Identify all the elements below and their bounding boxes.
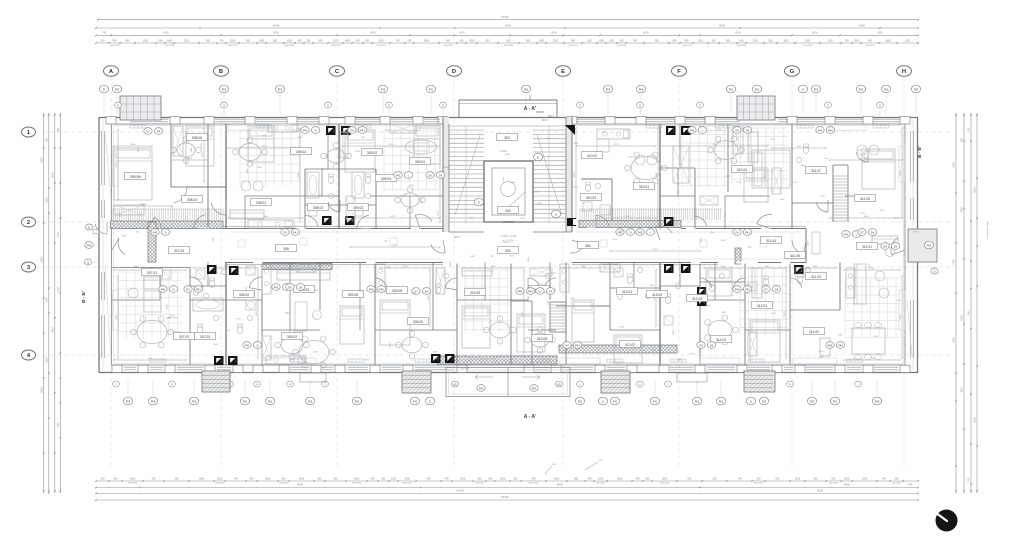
svg-text:302: 302	[505, 209, 511, 213]
svg-text:3600: 3600	[726, 176, 732, 178]
svg-text:600: 600	[646, 477, 651, 480]
svg-text:600: 600	[740, 39, 745, 42]
svg-text:P01: P01	[755, 87, 760, 91]
svg-text:(900x2350): (900x2350)	[568, 45, 577, 47]
svg-text:(900x2350): (900x2350)	[285, 45, 294, 47]
svg-text:8000: 8000	[444, 167, 450, 169]
svg-text:8000: 8000	[817, 489, 824, 493]
svg-text:1500: 1500	[230, 39, 236, 42]
svg-text:1790: 1790	[716, 129, 722, 131]
svg-text:14460: 14460	[272, 23, 280, 27]
svg-text:(900x2350): (900x2350)	[617, 45, 626, 47]
svg-text:500: 500	[699, 39, 704, 42]
svg-text:900: 900	[206, 39, 211, 42]
svg-text:8000: 8000	[643, 32, 649, 35]
svg-text:D6: D6	[428, 173, 432, 177]
svg-text:600: 600	[382, 477, 387, 480]
svg-text:1800: 1800	[424, 39, 430, 42]
svg-text:740: 740	[968, 127, 971, 132]
svg-text:2t: 2t	[429, 399, 431, 403]
svg-text:D4: D4	[425, 289, 429, 293]
svg-text:A - A': A - A'	[524, 106, 536, 112]
svg-text:2975: 2975	[819, 357, 825, 359]
svg-text:2975: 2975	[725, 213, 727, 219]
svg-text:P41: P41	[360, 128, 365, 132]
svg-text:D6: D6	[288, 285, 292, 289]
svg-text:P01: P01	[729, 87, 734, 91]
svg-text:740: 740	[633, 39, 638, 42]
svg-text:313.05: 313.05	[470, 291, 480, 295]
svg-text:900: 900	[832, 477, 837, 480]
svg-text:(900x2350): (900x2350)	[279, 483, 289, 485]
svg-text:1485: 1485	[171, 204, 173, 210]
svg-text:+5,000: +5,000	[499, 150, 507, 153]
svg-text:2440: 2440	[968, 310, 971, 316]
svg-text:310.02: 310.02	[587, 154, 597, 158]
svg-text:DET.9: DET.9	[454, 236, 461, 239]
svg-text:900: 900	[636, 477, 641, 480]
svg-text:2440: 2440	[247, 168, 249, 174]
svg-text:3675: 3675	[262, 146, 268, 148]
svg-text:(900x2350): (900x2350)	[682, 45, 691, 47]
svg-text:P40: P40	[518, 289, 523, 293]
svg-text:4425: 4425	[511, 182, 517, 184]
svg-text:2100: 2100	[813, 266, 819, 268]
svg-text:307.02: 307.02	[179, 335, 189, 339]
svg-text:8000: 8000	[355, 151, 361, 153]
svg-text:DET.9: DET.9	[913, 232, 920, 234]
svg-text:2100: 2100	[824, 158, 830, 160]
svg-text:P41: P41	[293, 230, 298, 234]
svg-text:2440: 2440	[403, 266, 409, 268]
svg-text:A - A': A - A'	[524, 414, 536, 420]
svg-text:308.03: 308.03	[313, 206, 323, 210]
svg-text:313.03: 313.03	[652, 293, 662, 297]
svg-text:3675: 3675	[246, 286, 248, 292]
svg-text:(900x2350): (900x2350)	[596, 483, 606, 485]
svg-text:600: 600	[507, 39, 512, 42]
svg-text:8340: 8340	[163, 32, 169, 35]
svg-text:(900x2350): (900x2350)	[660, 483, 670, 485]
svg-text:6460: 6460	[877, 32, 883, 35]
svg-text:2t: 2t	[172, 287, 174, 291]
svg-text:300: 300	[712, 39, 717, 42]
svg-text:D6: D6	[894, 244, 898, 248]
svg-text:308.06: 308.06	[192, 136, 202, 140]
svg-text:60420: 60420	[501, 495, 509, 499]
svg-text:(900x2350): (900x2350)	[443, 45, 452, 47]
svg-text:3930: 3930	[784, 311, 786, 317]
svg-text:D6: D6	[710, 343, 714, 347]
svg-text:A5: A5	[557, 382, 561, 386]
svg-text:B - B': B - B'	[81, 291, 86, 303]
svg-text:1485: 1485	[173, 318, 179, 320]
svg-text:1200: 1200	[862, 477, 868, 480]
svg-text:2975: 2975	[860, 213, 866, 215]
svg-text:2t: 2t	[314, 128, 316, 132]
svg-text:3600: 3600	[45, 197, 48, 203]
svg-text:P01: P01	[278, 87, 283, 91]
svg-text:8000: 8000	[297, 483, 304, 487]
svg-text:2740: 2740	[805, 268, 811, 270]
svg-text:600: 600	[776, 477, 781, 480]
svg-text:8000: 8000	[719, 23, 725, 27]
svg-text:P03: P03	[914, 87, 919, 91]
svg-text:900: 900	[610, 39, 615, 42]
svg-text:311.07: 311.07	[811, 169, 821, 173]
svg-text:900: 900	[532, 477, 537, 480]
svg-text:2t: 2t	[537, 155, 539, 159]
svg-text:307.03: 307.03	[200, 335, 210, 339]
svg-text:P02: P02	[524, 87, 529, 91]
svg-text:J: J	[324, 384, 325, 386]
svg-text:P03: P03	[859, 87, 864, 91]
svg-text:313.02: 313.02	[625, 343, 635, 347]
svg-text:P03: P03	[413, 399, 418, 403]
svg-text:1800: 1800	[783, 39, 789, 42]
svg-text:13090: 13090	[40, 256, 43, 263]
svg-text:1500: 1500	[662, 477, 668, 480]
svg-text:600: 600	[366, 39, 371, 42]
svg-text:309.06: 309.06	[348, 293, 358, 297]
svg-text:740: 740	[396, 39, 401, 42]
svg-text:8050: 8050	[974, 187, 977, 193]
svg-text:4425: 4425	[421, 197, 423, 203]
svg-text:D4: D4	[871, 230, 875, 234]
svg-text:1485: 1485	[505, 154, 511, 156]
svg-text:P01: P01	[268, 399, 273, 403]
svg-text:311.06: 311.06	[860, 197, 870, 201]
svg-text:2100: 2100	[894, 218, 900, 220]
svg-text:(900x2350): (900x2350)	[865, 45, 874, 47]
svg-text:900: 900	[250, 477, 255, 480]
svg-text:2740: 2740	[820, 196, 826, 198]
svg-text:1790: 1790	[570, 298, 576, 300]
svg-text:300: 300	[486, 39, 491, 42]
svg-text:1485: 1485	[528, 295, 530, 301]
svg-text:1200: 1200	[391, 477, 397, 480]
svg-text:1500: 1500	[752, 39, 758, 42]
svg-text:900: 900	[113, 39, 118, 42]
svg-text:740: 740	[968, 477, 971, 482]
svg-text:900: 900	[688, 477, 693, 480]
svg-text:P40: P40	[379, 287, 384, 291]
svg-text:P22: P22	[762, 399, 767, 403]
svg-text:307.01: 307.01	[147, 271, 157, 275]
svg-text:G: G	[790, 69, 795, 75]
svg-text:308.00: 308.00	[239, 293, 249, 297]
svg-text:DET.9: DET.9	[548, 115, 555, 118]
svg-text:3485: 3485	[953, 337, 956, 343]
svg-text:D4: D4	[350, 128, 354, 132]
svg-text:4425: 4425	[389, 144, 395, 146]
svg-text:900: 900	[571, 39, 576, 42]
svg-text:D4: D4	[549, 289, 553, 293]
svg-text:900: 900	[159, 39, 164, 42]
svg-text:1790: 1790	[770, 139, 776, 141]
svg-text:D4: D4	[735, 230, 739, 234]
svg-text:P42: P42	[844, 232, 849, 236]
svg-text:2100: 2100	[201, 143, 203, 149]
svg-text:311.01: 311.01	[862, 245, 872, 249]
svg-text:2100: 2100	[254, 291, 256, 297]
svg-text:6475: 6475	[653, 249, 659, 251]
svg-text:740: 740	[445, 477, 450, 480]
svg-text:P40: P40	[838, 343, 843, 347]
svg-text:2t: 2t	[750, 399, 752, 403]
svg-text:P02: P02	[115, 87, 120, 91]
svg-text:2740: 2740	[547, 300, 549, 306]
svg-text:P40: P40	[828, 128, 833, 132]
svg-text:900: 900	[961, 137, 964, 142]
svg-text:312.02: 312.02	[716, 338, 726, 342]
svg-text:900: 900	[45, 137, 48, 142]
svg-text:311.05: 311.05	[790, 254, 800, 258]
svg-text:309.02: 309.02	[367, 151, 377, 155]
svg-text:1800: 1800	[199, 477, 205, 480]
svg-text:P41: P41	[745, 230, 750, 234]
svg-text:300: 300	[101, 39, 106, 42]
svg-text:P02: P02	[355, 399, 360, 403]
svg-text:(900x2350): (900x2350)	[402, 483, 412, 485]
svg-text:313.01: 313.01	[622, 290, 632, 294]
svg-text:4425: 4425	[601, 132, 607, 134]
svg-text:900: 900	[460, 39, 465, 42]
svg-text:309.00: 309.00	[413, 320, 423, 324]
svg-text:8000: 8000	[528, 256, 530, 262]
svg-text:D: D	[452, 69, 456, 75]
svg-text:3600: 3600	[450, 261, 452, 267]
svg-text:1200: 1200	[598, 477, 604, 480]
svg-text:1485: 1485	[837, 335, 843, 337]
svg-text:3675: 3675	[433, 351, 439, 353]
svg-text:8050: 8050	[40, 157, 43, 163]
svg-text:309.01: 309.01	[415, 160, 425, 164]
svg-text:1800: 1800	[617, 477, 623, 480]
svg-text:1200: 1200	[552, 39, 558, 42]
svg-text:1200: 1200	[551, 273, 557, 275]
svg-text:1200: 1200	[217, 477, 223, 480]
svg-text:900: 900	[371, 477, 376, 480]
svg-text:600: 600	[906, 39, 911, 42]
svg-text:D4: D4	[157, 129, 161, 133]
svg-text:D7: D7	[146, 129, 150, 133]
svg-text:800: 800	[685, 39, 690, 42]
svg-text:2740: 2740	[628, 157, 634, 159]
svg-text:P02: P02	[814, 87, 819, 91]
svg-text:P40: P40	[828, 343, 833, 347]
svg-text:1200: 1200	[780, 199, 786, 201]
svg-text:900: 900	[318, 477, 323, 480]
svg-text:P01: P01	[695, 399, 700, 403]
svg-text:307.04: 307.04	[174, 249, 184, 253]
svg-text:P09: P09	[875, 399, 880, 403]
svg-text:P41: P41	[575, 343, 580, 347]
svg-text:4425: 4425	[808, 240, 810, 246]
svg-text:8000: 8000	[735, 32, 741, 35]
svg-text:3675: 3675	[614, 144, 620, 146]
svg-text:2: 2	[27, 220, 30, 226]
svg-text:900: 900	[655, 39, 660, 42]
svg-text:J: J	[667, 384, 668, 386]
svg-text:1200: 1200	[184, 39, 190, 42]
svg-text:4580: 4580	[298, 172, 300, 178]
svg-text:2t: 2t	[933, 269, 935, 273]
svg-text:2t: 2t	[555, 212, 557, 216]
svg-text:H: H	[491, 254, 493, 258]
svg-text:4425: 4425	[503, 242, 509, 244]
svg-text:D6: D6	[735, 128, 739, 132]
svg-text:3930: 3930	[900, 314, 902, 320]
svg-text:2100: 2100	[213, 344, 219, 346]
svg-text:(900x2350): (900x2350)	[110, 45, 119, 47]
svg-text:3600: 3600	[116, 162, 118, 168]
svg-text:P05: P05	[308, 399, 313, 403]
svg-text:1485: 1485	[721, 312, 727, 314]
svg-text:P02: P02	[222, 87, 227, 91]
svg-text:(900x2350): (900x2350)	[504, 45, 513, 47]
svg-text:2440: 2440	[706, 306, 712, 308]
svg-text:9000: 9000	[273, 32, 279, 35]
svg-text:P02: P02	[613, 399, 618, 403]
svg-text:D7: D7	[860, 230, 864, 234]
svg-text:1800: 1800	[259, 39, 265, 42]
svg-text:1500: 1500	[854, 39, 860, 42]
svg-text:900: 900	[175, 477, 180, 480]
svg-text:387.03: 387.03	[461, 367, 469, 370]
svg-text:P40: P40	[369, 287, 374, 291]
svg-text:3600: 3600	[289, 270, 295, 272]
svg-text:P0J: P0J	[927, 243, 932, 247]
svg-text:1200: 1200	[736, 181, 742, 183]
svg-text:312.01: 312.01	[757, 304, 767, 308]
svg-text:2975: 2975	[879, 210, 885, 212]
svg-text:300: 300	[814, 477, 819, 480]
svg-text:P40: P40	[735, 287, 740, 291]
svg-text:5050: 5050	[51, 327, 54, 333]
svg-text:312.03: 312.03	[692, 297, 702, 301]
svg-text:1800: 1800	[539, 39, 545, 42]
svg-text:1485: 1485	[470, 256, 476, 258]
svg-text:900: 900	[319, 39, 324, 42]
svg-text:2t: 2t	[256, 343, 258, 347]
svg-text:2t: 2t	[478, 200, 480, 204]
svg-text:2740: 2740	[625, 216, 631, 218]
svg-text:(900x2350): (900x2350)	[228, 45, 237, 47]
svg-text:E: E	[561, 69, 565, 75]
svg-text:P42: P42	[274, 285, 279, 289]
svg-text:600: 600	[126, 39, 131, 42]
svg-text:1500: 1500	[130, 477, 136, 480]
svg-text:P41: P41	[196, 287, 201, 291]
svg-text:2560: 2560	[428, 295, 430, 301]
svg-text:2100: 2100	[313, 351, 319, 353]
svg-text:308.01: 308.01	[256, 201, 266, 205]
svg-text:308.04: 308.04	[187, 198, 197, 202]
svg-text:1485: 1485	[434, 359, 440, 361]
svg-text:600: 600	[282, 477, 287, 480]
svg-text:8050: 8050	[974, 417, 977, 423]
svg-text:309.04: 309.04	[381, 177, 391, 181]
svg-text:308.02: 308.02	[296, 150, 306, 154]
svg-text:(900x2350): (900x2350)	[376, 45, 385, 47]
svg-text:D6: D6	[746, 128, 750, 132]
svg-text:2975: 2975	[573, 187, 579, 189]
svg-text:3600: 3600	[520, 218, 526, 220]
svg-text:P41: P41	[303, 128, 308, 132]
svg-text:900: 900	[408, 39, 413, 42]
svg-text:2440: 2440	[533, 192, 539, 194]
svg-text:740: 740	[882, 477, 887, 480]
svg-text:(900x2350): (900x2350)	[754, 483, 764, 485]
svg-text:J: J	[579, 384, 580, 386]
svg-text:300: 300	[152, 477, 157, 480]
svg-text:F: F	[677, 69, 681, 75]
svg-text:2440: 2440	[257, 167, 263, 169]
svg-text:3930: 3930	[116, 314, 118, 320]
svg-text:8000: 8000	[505, 23, 511, 27]
svg-text:4425: 4425	[226, 330, 232, 332]
svg-text:P03: P03	[884, 87, 889, 91]
svg-text:900: 900	[526, 39, 531, 42]
svg-text:P06: P06	[87, 243, 92, 247]
svg-text:1200: 1200	[873, 336, 879, 338]
svg-text:2740: 2740	[793, 182, 799, 184]
svg-text:8000: 8000	[557, 483, 564, 487]
svg-text:8000: 8000	[812, 32, 818, 35]
svg-text:P04: P04	[606, 87, 611, 91]
svg-text:D4: D4	[186, 287, 190, 291]
svg-text:600: 600	[588, 39, 593, 42]
svg-text:2t: 2t	[103, 87, 105, 91]
svg-text:P04: P04	[151, 399, 156, 403]
svg-text:1485: 1485	[284, 313, 290, 315]
svg-text:D6: D6	[439, 173, 443, 177]
svg-text:B: B	[219, 69, 223, 75]
svg-text:900: 900	[769, 39, 774, 42]
svg-text:301: 301	[505, 249, 511, 253]
svg-text:1485: 1485	[313, 290, 319, 292]
svg-text:8000: 8000	[459, 32, 465, 35]
svg-text:1485: 1485	[165, 318, 171, 320]
svg-text:4580: 4580	[574, 172, 576, 178]
svg-text:900: 900	[478, 477, 483, 480]
svg-text:3485: 3485	[953, 162, 956, 168]
svg-text:3600: 3600	[537, 203, 543, 205]
svg-text:4850: 4850	[961, 387, 964, 393]
svg-text:3675: 3675	[167, 303, 169, 309]
svg-text:6460: 6460	[859, 23, 865, 27]
svg-text:P40: P40	[528, 289, 533, 293]
svg-text:D4: D4	[775, 287, 779, 291]
svg-text:600: 600	[57, 422, 60, 427]
svg-text:1485: 1485	[191, 147, 193, 153]
svg-text:1800: 1800	[131, 144, 137, 146]
svg-text:900: 900	[868, 39, 873, 42]
svg-text:3600: 3600	[801, 165, 807, 167]
svg-text:1200: 1200	[857, 150, 863, 152]
svg-text:900: 900	[356, 39, 361, 42]
svg-text:1500: 1500	[599, 39, 605, 42]
svg-text:900: 900	[101, 477, 106, 480]
svg-text:310.03: 310.03	[586, 196, 596, 200]
svg-text:P41: P41	[245, 343, 250, 347]
svg-text:(900x2350): (900x2350)	[215, 483, 225, 485]
svg-text:+7,364 + 3 NP: +7,364 + 3 NP	[500, 234, 517, 238]
svg-text:2440: 2440	[298, 137, 304, 139]
svg-text:P04: P04	[126, 399, 131, 403]
svg-text:D7: D7	[764, 287, 768, 291]
